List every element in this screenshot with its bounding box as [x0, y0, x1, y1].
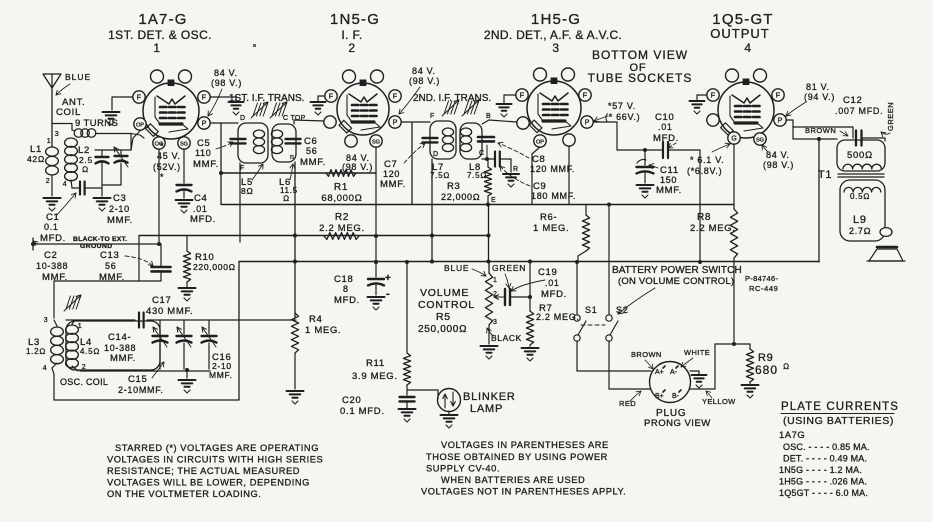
label 45V	[153, 141, 181, 182]
label C4	[190, 193, 216, 225]
svg-text:BLUE: BLUE	[444, 263, 469, 273]
wire P4 to T1	[786, 120, 849, 139]
label L4	[80, 337, 100, 356]
svg-text:1H5G - - - - .026 MA.: 1H5G - - - - .026 MA.	[779, 477, 867, 487]
svg-text:SG: SG	[180, 142, 188, 148]
coil 9-turn loop	[72, 129, 144, 138]
label *57V	[605, 101, 640, 122]
ground node R	[503, 174, 519, 187]
wire P2 to IF2	[401, 122, 430, 205]
svg-text:MFD.: MFD.	[653, 133, 679, 144]
pin D IF2	[433, 151, 439, 158]
svg-text:D: D	[433, 151, 439, 158]
capacitor C17	[139, 313, 144, 328]
coil T1 primary	[843, 164, 881, 169]
svg-text:RED: RED	[619, 399, 636, 408]
svg-text:WHEN BATTERIES ARE USED: WHEN BATTERIES ARE USED	[441, 475, 585, 485]
svg-text:PLATE CURRENTS: PLATE CURRENTS	[781, 401, 899, 413]
svg-text:*: *	[160, 172, 164, 182]
label C7	[380, 159, 406, 190]
ground tube4 F-left	[690, 101, 705, 114]
wire OG1 down	[157, 149, 161, 246]
svg-text:OUTPUT: OUTPUT	[710, 26, 769, 41]
label C17	[146, 295, 193, 317]
svg-text:R: R	[513, 166, 519, 173]
label R1	[321, 182, 362, 204]
svg-text:R8: R8	[697, 212, 711, 223]
pin R IF2	[513, 166, 519, 173]
resistor R3	[484, 159, 491, 264]
wire F4 to ground	[697, 95, 707, 100]
note starred voltages	[107, 443, 323, 499]
coil IF1 primary	[253, 130, 264, 154]
label BLUE vc	[444, 263, 486, 276]
wire node C junction	[482, 145, 489, 161]
label YELLOW	[702, 391, 736, 406]
svg-text:120: 120	[383, 169, 400, 179]
wire A- to ground	[690, 371, 699, 374]
label T1	[818, 169, 832, 181]
ground under blinker	[441, 415, 458, 428]
coil IF1 secondary	[271, 130, 282, 154]
wire R7 col	[528, 260, 532, 312]
pin F IF2	[430, 113, 435, 120]
label R3	[441, 181, 480, 202]
wire osc zigzag path	[54, 236, 161, 318]
title tube 1	[108, 11, 212, 55]
svg-text:0.1: 0.1	[44, 222, 59, 232]
wire osc top rail	[66, 319, 296, 321]
label 9 TURNS	[75, 118, 118, 129]
prong A+	[655, 366, 665, 376]
svg-text:1H5-G: 1H5-G	[531, 11, 581, 28]
svg-text:F: F	[329, 92, 334, 101]
wire IF1 pri down	[239, 163, 241, 242]
wire tube3 pin down	[568, 146, 570, 205]
svg-text:1A7G: 1A7G	[779, 430, 805, 441]
terminal 1 (L2)	[47, 138, 52, 145]
wire grid rail	[95, 134, 131, 150]
ground plug A-	[692, 375, 707, 388]
svg-text:(98 V.): (98 V.)	[763, 160, 794, 170]
svg-text:E: E	[491, 197, 496, 204]
svg-text:BOTTOM VIEW: BOTTOM VIEW	[592, 48, 688, 62]
terminal 3 R5	[493, 319, 498, 326]
capacitor C13	[152, 244, 171, 281]
tube U3 1H5-G socket	[516, 68, 593, 147]
label L8	[467, 162, 487, 180]
svg-text:.01: .01	[545, 278, 560, 288]
label BROWN T1	[805, 126, 848, 136]
svg-text:BROWN: BROWN	[805, 126, 836, 135]
svg-text:500Ω: 500Ω	[847, 150, 873, 161]
svg-text:S2: S2	[616, 305, 628, 315]
label 6.1V	[687, 155, 724, 176]
core T1	[838, 174, 884, 177]
svg-text:OSC. COIL: OSC. COIL	[60, 377, 108, 387]
svg-text:G: G	[731, 134, 737, 143]
svg-text:PRONG VIEW: PRONG VIEW	[644, 418, 711, 429]
tube U1 1A7-G socket	[133, 70, 210, 149]
wire C10 down	[698, 150, 702, 264]
svg-text:MMF.: MMF.	[656, 185, 682, 196]
svg-text:MMF.: MMF.	[380, 179, 406, 190]
svg-text:C17: C17	[152, 295, 172, 306]
svg-text:1.2Ω: 1.2Ω	[26, 347, 46, 356]
resistor R5 volume control	[485, 262, 492, 345]
hatch IF1 a	[251, 102, 268, 118]
svg-text:F: F	[202, 93, 207, 102]
label 84V tube2 SG	[342, 153, 373, 172]
svg-text:2.7Ω: 2.7Ω	[849, 226, 871, 236]
svg-text:4: 4	[43, 365, 48, 372]
leader 81V to P4	[786, 102, 806, 116]
svg-text:(94 V.): (94 V.)	[804, 92, 835, 102]
svg-text:R1: R1	[334, 182, 348, 193]
svg-text:56: 56	[306, 146, 317, 156]
capacitor antenna padder	[96, 150, 109, 185]
prong A-	[670, 366, 678, 376]
svg-text:BLUE: BLUE	[65, 72, 91, 82]
label C8	[530, 154, 575, 174]
label C15	[118, 362, 164, 395]
label R10	[193, 252, 236, 272]
label L3	[26, 337, 46, 356]
wire P3 right	[593, 122, 663, 150]
svg-text:MMF.: MMF.	[300, 157, 326, 168]
svg-text:RESISTANCE; THE ACTUAL MEASURE: RESISTANCE; THE ACTUAL MEASURED	[107, 466, 300, 476]
svg-text:0.1 MFD.: 0.1 MFD.	[340, 406, 385, 417]
label C9	[531, 181, 576, 201]
svg-text:2-10MMF.: 2-10MMF.	[118, 385, 164, 395]
label BROWN plug	[631, 350, 662, 369]
plug prong view	[650, 362, 691, 403]
svg-text:GREEN: GREEN	[492, 263, 526, 273]
capacitor C4	[177, 185, 192, 198]
svg-text:C20: C20	[342, 395, 362, 406]
resistor R4	[291, 313, 298, 389]
label BLUE (antenna)	[56, 72, 91, 95]
IF2 primary box	[430, 121, 456, 159]
label R9	[755, 352, 790, 377]
wire P1 to IF1	[210, 123, 238, 205]
wire SG2 down	[374, 147, 378, 264]
leader switch label	[618, 288, 655, 314]
wire F3 to ground	[504, 95, 516, 103]
resistor R6	[578, 205, 590, 263]
svg-text:A-: A-	[670, 369, 678, 376]
label WHITE	[681, 348, 710, 367]
speaker	[867, 247, 905, 261]
capacitor C16	[202, 320, 217, 369]
label 81V	[804, 82, 835, 102]
resistor R8	[730, 205, 737, 263]
svg-text:MFD.: MFD.	[541, 289, 567, 300]
svg-text:R2: R2	[335, 212, 349, 223]
label 0.5ohm	[850, 192, 870, 201]
capacitor C20	[400, 397, 415, 408]
svg-text:430 MMF.: 430 MMF.	[146, 306, 193, 317]
terminal 4 (L2)	[63, 181, 68, 188]
svg-text:* 6.1 V.: * 6.1 V.	[690, 155, 724, 165]
svg-text:56: 56	[105, 261, 116, 271]
wire S1 to plug A+	[577, 370, 651, 372]
wire IF1 sec down	[293, 162, 297, 318]
svg-text:Ω: Ω	[783, 362, 790, 371]
svg-text:P: P	[393, 118, 398, 127]
label R2	[319, 212, 365, 234]
label C14	[104, 332, 136, 364]
svg-text:45 V.: 45 V.	[157, 151, 181, 161]
svg-text:84 V.: 84 V.	[412, 66, 436, 76]
svg-text:SUPPLY CV-40.: SUPPLY CV-40.	[426, 464, 500, 474]
svg-text:1A7-G: 1A7-G	[138, 11, 187, 28]
label C19	[538, 267, 567, 300]
terminal 3 (L3)	[44, 317, 49, 324]
wire to blinker	[407, 390, 438, 399]
svg-text:F: F	[520, 91, 525, 100]
svg-text:T1: T1	[818, 169, 832, 181]
svg-text:1 MEG.: 1 MEG.	[305, 325, 341, 336]
prong B-	[672, 390, 681, 400]
wire osc bottom rail	[80, 368, 210, 378]
ground under R7	[522, 348, 539, 361]
svg-text:0.5Ω: 0.5Ω	[850, 192, 870, 201]
leader C1	[56, 193, 76, 216]
ground under C20	[399, 409, 416, 422]
prong B+	[655, 390, 665, 400]
IF1 secondary box	[272, 124, 296, 162]
ground tube1 F-left	[103, 112, 120, 125]
svg-text:8: 8	[343, 284, 349, 294]
svg-text:84 V.: 84 V.	[766, 150, 790, 160]
terminal 2 (L2)	[46, 178, 51, 185]
svg-text:MMF.: MMF.	[193, 159, 219, 170]
capacitor C19	[503, 289, 530, 305]
label L5	[241, 164, 263, 196]
plate currents table	[779, 401, 899, 498]
label C20	[340, 395, 385, 417]
label BATTERY POWER SWITCH	[612, 265, 742, 287]
pin B IF2	[486, 113, 491, 120]
resistor R9	[746, 344, 753, 384]
label L6	[279, 164, 298, 203]
svg-text:F: F	[583, 91, 588, 100]
svg-text:10-388: 10-388	[104, 343, 136, 353]
pin F IF1	[240, 165, 245, 172]
svg-text:MMF.: MMF.	[110, 353, 136, 364]
title tube 3	[484, 11, 622, 55]
leader C13	[125, 256, 153, 266]
leader C5	[216, 142, 233, 149]
svg-text:C: C	[479, 150, 485, 157]
svg-text:3.9 MEG.: 3.9 MEG.	[352, 371, 398, 382]
svg-text:BLACK: BLACK	[491, 333, 522, 343]
svg-text:P: P	[778, 116, 783, 125]
label 84V tube2 top	[409, 66, 440, 86]
resistor R2	[324, 233, 359, 240]
capacitor C11	[637, 148, 654, 183]
wire F1 to ground	[112, 97, 133, 110]
coil IF2 primary	[442, 128, 453, 152]
svg-text:1N5-G: 1N5-G	[330, 11, 380, 28]
svg-text:MFD.: MFD.	[334, 295, 360, 306]
label 84V tube1	[211, 68, 242, 88]
resistor R11	[403, 260, 410, 395]
blinker lamp	[438, 389, 461, 415]
svg-text:C3: C3	[113, 193, 127, 204]
coil L4	[66, 320, 79, 371]
capacitor C12	[849, 127, 885, 146]
svg-text:C14-: C14-	[108, 332, 131, 343]
IF1 primary box	[238, 123, 268, 163]
svg-text:OP: OP	[536, 140, 544, 146]
svg-text:2ND. DET., A.F. & A.V.C.: 2ND. DET., A.F. & A.V.C.	[484, 28, 622, 42]
wiper R5	[494, 295, 503, 300]
capacitor C8 body	[478, 137, 494, 141]
capacitor C3	[114, 147, 128, 185]
label C10	[653, 112, 679, 148]
coil L1	[46, 147, 59, 196]
transformer T1 primary box	[837, 140, 885, 171]
terminal 2 R5	[493, 291, 498, 298]
svg-text:(* 66V.): (* 66V.)	[605, 112, 640, 122]
ground under C3	[94, 198, 111, 211]
svg-text:4: 4	[63, 181, 68, 188]
terminal 3 (L2)	[55, 131, 60, 138]
ground under R10	[179, 288, 196, 301]
pin C IF2	[479, 150, 485, 157]
wire OP1	[131, 131, 140, 150]
svg-text:.007 MFD.: .007 MFD.	[835, 106, 883, 116]
wire main bus B-minus	[239, 261, 819, 263]
capacitor C15	[177, 320, 192, 369]
svg-text:1ST. DET. & OSC.: 1ST. DET. & OSC.	[108, 28, 212, 42]
transformer T1 secondary box (L9)	[840, 180, 885, 241]
svg-text:C15: C15	[128, 374, 148, 385]
ground osc	[179, 380, 196, 393]
svg-text:VOLUME: VOLUME	[420, 287, 469, 299]
wire osc return	[54, 262, 239, 400]
terminal 1 (L4)	[78, 323, 83, 330]
label C18 plus	[385, 273, 392, 300]
svg-text:YELLOW: YELLOW	[702, 397, 736, 406]
leader C19	[511, 280, 545, 291]
svg-text:3: 3	[55, 131, 60, 138]
label GREEN T1	[881, 102, 895, 137]
svg-text:C2: C2	[44, 250, 58, 261]
wire IF1 to tube2 grid	[294, 120, 324, 124]
svg-text:COIL: COIL	[56, 107, 81, 118]
leader 84V tube1	[208, 89, 222, 116]
svg-text:I. F.: I. F.	[341, 28, 362, 42]
svg-text:RC-449: RC-449	[749, 284, 778, 293]
label R4	[305, 314, 341, 336]
svg-text:MFD.: MFD.	[40, 233, 66, 244]
label ANT COIL	[56, 97, 85, 118]
terminal 4 (L3)	[43, 365, 48, 372]
svg-text:S1: S1	[585, 305, 597, 315]
wire IF2 B to tube3	[482, 120, 517, 124]
wire row R1	[219, 171, 376, 175]
label C3	[107, 193, 133, 226]
wire SG1 down	[183, 149, 185, 183]
terminal 2 (L4)	[82, 364, 87, 371]
svg-text:3: 3	[493, 319, 498, 326]
leader C9	[500, 166, 530, 186]
svg-text:.01: .01	[658, 122, 673, 132]
svg-text:MMF.: MMF.	[107, 215, 133, 226]
svg-text:GREEN: GREEN	[886, 102, 895, 131]
label C18	[334, 274, 360, 306]
switch S1	[574, 260, 586, 371]
wire row R2	[139, 234, 489, 238]
svg-text:(*6.8V.): (*6.8V.)	[687, 166, 722, 176]
caption bottom view	[588, 48, 693, 85]
pin D IF1	[240, 115, 246, 122]
leader 84V tube2	[399, 87, 420, 114]
svg-text:(USING BATTERIES): (USING BATTERIES)	[783, 415, 894, 427]
svg-text:2: 2	[46, 178, 51, 185]
svg-text:8Ω: 8Ω	[241, 186, 254, 196]
label C2	[36, 250, 68, 283]
svg-text:SG: SG	[372, 140, 380, 146]
svg-text:68,000Ω: 68,000Ω	[321, 193, 362, 204]
label GREEN vc	[492, 263, 526, 288]
svg-text:220,000Ω: 220,000Ω	[193, 262, 236, 272]
svg-text:A+: A+	[655, 369, 664, 376]
svg-text:Ω: Ω	[82, 165, 89, 174]
ground tube1 F-right	[229, 102, 244, 115]
svg-text:7.5Ω: 7.5Ω	[430, 171, 450, 180]
svg-text:(ON VOLUME CONTROL): (ON VOLUME CONTROL)	[618, 276, 734, 287]
coil T1 secondary	[844, 187, 881, 192]
label 2nd IF TRANS	[413, 93, 491, 104]
svg-text:2.2 MEG.: 2.2 MEG.	[319, 223, 365, 234]
pin C-TOP IF1	[283, 115, 306, 122]
svg-text:F: F	[137, 93, 142, 102]
label RED plug	[619, 391, 641, 408]
svg-text:STARRED (*) VOLTAGES ARE OPERA: STARRED (*) VOLTAGES ARE OPERATING	[115, 443, 319, 453]
svg-text:L9: L9	[853, 214, 867, 226]
wire bus A-minus	[31, 238, 161, 250]
wire cap bottoms	[102, 185, 121, 196]
svg-text:1N5G - - - - 1.2 MA.: 1N5G - - - - 1.2 MA.	[779, 465, 862, 475]
svg-text:+: +	[385, 273, 392, 284]
label C13	[99, 250, 125, 283]
wire row bus204	[222, 203, 734, 207]
svg-text:n: n	[290, 154, 295, 161]
svg-text:D: D	[240, 115, 246, 122]
svg-text:1: 1	[47, 138, 52, 145]
label S2	[616, 305, 628, 315]
wire antenna down	[52, 88, 72, 147]
label OSC COIL	[60, 377, 108, 387]
wire B- return	[690, 344, 750, 389]
svg-text:22,000Ω: 22,000Ω	[441, 192, 480, 202]
leader C7	[404, 143, 425, 163]
svg-text:TUBE SOCKETS: TUBE SOCKETS	[588, 71, 693, 85]
svg-text:SG: SG	[756, 138, 764, 144]
svg-text:VOLTAGES IN CIRCUITS WITH HIGH: VOLTAGES IN CIRCUITS WITH HIGH SERIES	[107, 455, 323, 465]
label S1	[585, 305, 597, 315]
svg-text:2: 2	[348, 41, 355, 55]
label L7	[430, 162, 450, 180]
svg-text:2.2 MEG.: 2.2 MEG.	[536, 312, 580, 322]
label BLACK	[487, 328, 522, 343]
label C16	[209, 352, 233, 380]
ground under R4	[287, 391, 304, 404]
